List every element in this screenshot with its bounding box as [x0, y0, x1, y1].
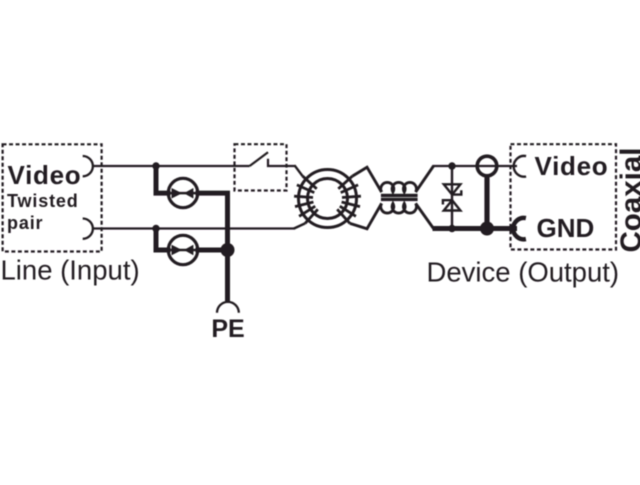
feed-through sleeve X1 circle: [477, 156, 497, 176]
output connector J2b (GND) arc: [513, 218, 526, 239]
wire: TVS branch: [451, 166, 453, 229]
switch S1 contact: [267, 159, 296, 167]
transformer T2 core lines: [381, 195, 418, 199]
wire: top output rail: [433, 165, 518, 167]
node D junction dot (TVS bottom): [448, 225, 455, 232]
wire: transformer to top output rail: [416, 166, 434, 192]
input connector J1a (video+) arc: [83, 156, 93, 176]
node A junction dot top: [152, 162, 159, 169]
svg-text:Video: Video: [8, 160, 82, 190]
svg-text:Device (Output): Device (Output): [427, 257, 620, 288]
wire: bottom output rail (thick ground): [433, 226, 518, 231]
surge arrester F2 (gas discharge tube): [168, 235, 197, 264]
wire: toroid to transformer bottom: [350, 203, 382, 228]
svg-text:Twisted: Twisted: [7, 191, 79, 211]
wire: toroid to transformer top: [352, 167, 381, 192]
arrester F1 left electrode triangle: [172, 188, 183, 199]
switch S1 blade: [250, 152, 268, 166]
node E junction dot (ground): [480, 222, 494, 236]
choke T1 right winding ticks: [337, 176, 361, 223]
svg-text:pair: pair: [7, 213, 43, 233]
arrester F1 right electrode triangle: [184, 188, 194, 199]
common-mode choke T1 toroid outer ring: [299, 170, 357, 228]
wire: top rail from input to switch: [93, 165, 250, 167]
choke T1 left winding ticks: [294, 176, 318, 223]
svg-text:GND: GND: [537, 213, 595, 243]
isolation transformer T2 primary winding: [381, 182, 417, 192]
output connector J2a (video) arc: [514, 156, 526, 177]
node C junction dot (TVS top): [448, 162, 455, 169]
wire: node A to arrester F1 (thick): [156, 165, 171, 193]
surge arrester F1 (gas discharge tube): [168, 178, 197, 207]
spark gap dashed box: [235, 144, 287, 190]
svg-text:Line (Input): Line (Input): [1, 255, 140, 286]
wire: arrester F2 to PE bus (thick): [196, 248, 228, 253]
wire: through arrester F2 (thin): [169, 249, 197, 252]
input connector J1b (video-) arc: [83, 219, 93, 239]
TVS diode D1 top triangle: [444, 184, 461, 194]
PE earth terminal arc: [217, 302, 239, 313]
svg-text:PE: PE: [211, 315, 244, 343]
arrester F2 right electrode triangle: [184, 245, 194, 256]
right connector dashed box (Device output): [511, 144, 617, 249]
choke T1 toroid inner ring: [308, 179, 348, 219]
TVS diode D1 cathode bars: [443, 190, 461, 204]
wire: bottom rail from input to toroid: [93, 227, 295, 229]
wire: switch to toroid top left: [295, 165, 303, 176]
wire: arrester F1 to PE bus (thick): [196, 191, 228, 301]
wire: through arrester F1 (thin): [169, 192, 197, 195]
left connector dashed box (Line input): [3, 144, 102, 251]
TVS diode D1 bottom triangle: [444, 200, 461, 210]
svg-text:Video: Video: [535, 151, 609, 181]
node B junction dot bottom: [152, 225, 159, 232]
PE bus junction dot: [221, 243, 235, 257]
isolation transformer T2 secondary winding: [381, 203, 417, 213]
svg-text:Coaxial: Coaxial: [615, 148, 640, 253]
wire: rail to toroid bottom left: [294, 223, 305, 228]
wire: sleeve to ground rail (thick): [484, 175, 489, 229]
wire: transformer to bottom output rail: [416, 203, 434, 228]
wire: node B to arrester F2 (thick): [156, 227, 171, 251]
arrester F2 left electrode triangle: [172, 245, 183, 256]
